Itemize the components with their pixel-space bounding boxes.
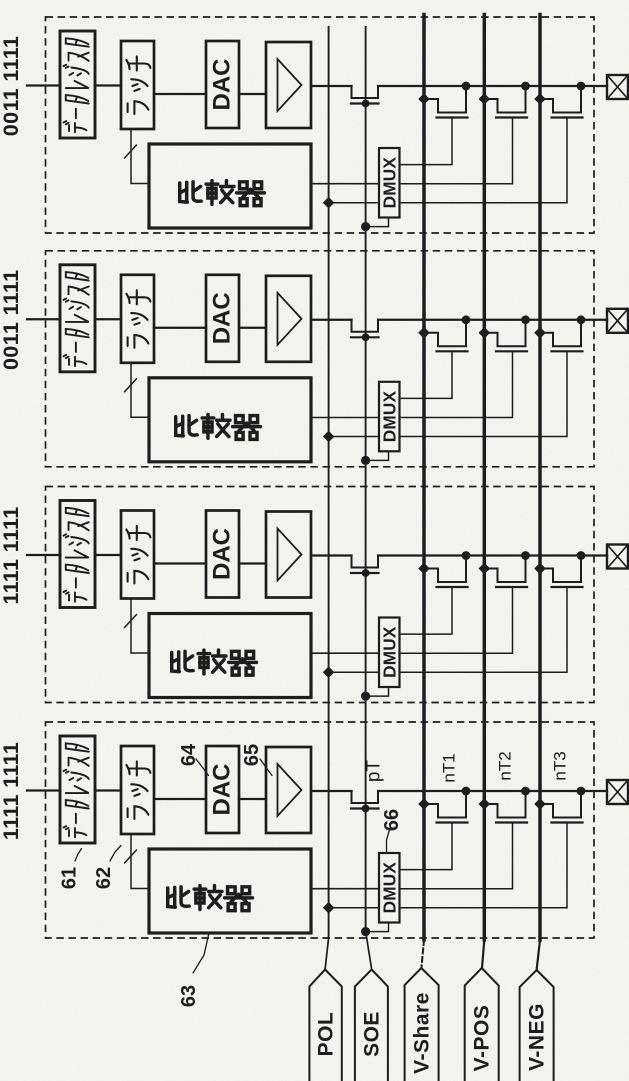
junction SOE tap ch4 [361,927,370,936]
channel block ch1 dashed outline [46,17,595,233]
junction nT3 drain on output ch4 [577,787,586,796]
comparator kanji glyph 3 ch1 [237,182,265,206]
transistor nT1 gate bar ch1 [437,116,468,118]
transistor nT1 gate bar ch2 [437,350,468,352]
transistor nT2 channel ch1 [484,86,525,113]
channel block ch2 dashed outline [46,251,595,467]
wire ch2 amplifier output [311,319,352,321]
transistor nT2 channel ch4 [484,791,525,818]
bus slash tick ch3 [125,615,137,628]
junction nT3 drain on output ch3 [577,551,586,560]
comparator kanji glyph 2 ch1 [206,181,234,205]
transistor pT gate bar ch4 [351,807,379,809]
transistor pT channel ch3 [352,556,379,568]
wire ch4 POL to DMUX [329,907,379,909]
transistor nT2 gate bar ch1 [496,116,527,118]
bus slash tick ch1 [125,145,137,158]
junction SOE to pT gate ch1 [362,100,370,108]
junction nT1 drain on output ch3 [462,551,471,560]
transistor pT gate bar ch3 [351,572,379,574]
amplifier box ch2 (65) [266,276,311,362]
comparator kanji glyph 2 ch2 [202,414,230,438]
junction nT2 drain on output ch1 [521,82,530,91]
latch box ch4 (62) [121,746,154,834]
transistor pT channel ch1 [352,86,379,98]
junction bus tap nT3 ch1 [534,93,546,105]
transistor nT3 channel ch4 [540,791,581,818]
label latch text ch4 [126,761,150,819]
net V-Share vertical line [422,15,426,941]
DAC box ch1 (64) [206,41,239,128]
channel block ch3 dashed outline [46,487,595,703]
output pad X mark ch1 [607,75,628,99]
comparator kanji glyph 1 ch1 [180,182,201,202]
label data-register text ch2 [63,272,88,366]
transistor nT3 channel ch2 [540,320,581,347]
transistor nT1 channel ch4 [424,791,466,818]
junction bus tap nT2 ch1 [479,93,491,105]
DAC box ch2 (64) [206,275,239,362]
comparator box ch3 (63) [149,614,311,698]
comparator box ch1 (63) [149,144,311,228]
junction bus tap nT1 ch2 [418,327,430,339]
wire V-Share dashed lead to tag [421,940,424,968]
DAC box ch3 (64) [206,511,239,598]
net V-NEG vertical line [538,15,542,941]
comparator box ch2 (63) [149,378,311,462]
junction POL tap ch3 [323,666,335,678]
transistor nT2 gate bar ch4 [496,821,527,823]
transistor nT3 gate bar ch4 [552,821,583,823]
transistor pT channel ch4 [352,791,379,803]
junction bus tap nT1 ch3 [418,563,430,575]
transistor nT1 channel ch1 [424,86,466,113]
latch box ch1 (62) [121,41,154,129]
label data-register text ch4 [63,743,88,837]
amplifier box ch3 (65) [266,512,311,598]
wire POL lead to tag [325,938,329,969]
junction SOE to pT gate ch3 [362,569,370,577]
output pad X mark ch4 [607,780,628,804]
wire ch3 DAC to amplifier [239,562,266,564]
transistor nT2 gate bar ch3 [496,586,527,588]
net POL vertical line [328,27,330,938]
wire ch3 latch to comparator [131,599,149,654]
wire ch3 POL to DMUX [329,671,379,673]
net SOE vertical line [365,27,367,931]
comparator kanji glyph 1 ch4 [168,887,189,907]
junction nT1 drain on output ch1 [462,82,471,91]
output pad box ch2 [607,309,628,333]
wire ch3 DMUX out1 to nT1 gate [400,588,453,634]
wire ch4 comparator to DMUX [311,888,379,890]
wire ch2 latch to DAC [154,327,206,329]
transistor nT2 channel ch2 [484,320,525,347]
junction nT3 drain on output ch1 [577,82,586,91]
wire ch3 DMUX out2 to nT2 gate [400,588,513,653]
wire ch4 SOE to DMUX [366,923,389,932]
DMUX box ch2 (66) [379,382,400,452]
wire ch2 DMUX out2 to nT2 gate [400,352,513,417]
wire ch1 DMUX out3 to nT3 gate [400,119,568,203]
wire ch4 data input [27,789,60,791]
data register box ch3 (61) [60,501,95,608]
wire ch4 DMUX out3 to nT3 gate [400,824,568,908]
wire ch2 DAC to amplifier [239,327,266,329]
comparator kanji glyph 3 ch4 [225,887,253,911]
comparator box ch4 (63) [149,849,311,933]
junction SOE to pT gate ch2 [362,333,370,341]
output pad box ch4 [607,780,628,804]
junction nT2 drain on output ch4 [521,787,530,796]
leader 64 [196,759,209,776]
transistor nT1 channel ch2 [424,320,466,347]
transistor pT channel ch2 [352,320,379,332]
transistor nT3 gate bar ch1 [552,116,583,118]
junction nT1 drain on output ch4 [462,787,471,796]
transistor nT2 gate bar ch2 [496,350,527,352]
DMUX box ch3 (66) [379,618,400,688]
junction bus tap nT2 ch2 [479,327,491,339]
wire ch3 latch to DAC [154,562,206,564]
terminal tag V-Share pentagon [405,968,439,1081]
wire ch4 DMUX out1 to nT1 gate [400,824,453,870]
leader 61 [75,849,82,862]
amplifier triangle ch4 [278,764,302,816]
terminal tag SOE pentagon [355,970,388,1081]
latch box ch3 (62) [121,511,154,599]
junction nT1 drain on output ch2 [462,315,471,324]
wire V-NEG lead to tag [537,940,540,970]
junction nT3 drain on output ch2 [577,315,586,324]
wire V-POS lead to tag [482,940,484,968]
junction bus tap nT2 ch4 [479,798,491,810]
junction bus tap nT2 ch3 [479,563,491,575]
data register box ch2 (61) [60,265,95,372]
bus slash tick ch4 [125,850,137,863]
wire ch4 latch to comparator [131,834,149,889]
junction SOE tap ch1 [361,222,370,231]
junction SOE tap ch2 [361,456,370,465]
wire SOE lead to tag [366,931,372,969]
junction bus tap nT1 ch1 [418,93,430,105]
transistor nT3 channel ch3 [540,556,581,583]
wire ch2 latch to comparator [131,363,149,418]
junction POL tap ch2 [323,431,335,443]
wire ch2 output line to pad [378,319,607,321]
wire ch2 DMUX out1 to nT1 gate [400,352,453,398]
comparator kanji glyph 3 ch3 [229,651,257,675]
amplifier triangle ch1 [278,59,302,111]
junction bus tap nT3 ch2 [534,327,546,339]
wire ch1 comparator to DMUX [311,183,379,185]
transistor nT1 channel ch3 [424,556,466,583]
leader 65 [260,759,272,776]
wire ch1 amplifier output [311,85,352,87]
comparator kanji glyph 3 ch2 [233,416,261,440]
transistor pT gate bar ch2 [351,336,379,338]
wire ch2 SOE to DMUX [366,451,389,460]
wire ch2 DMUX out3 to nT3 gate [400,352,568,436]
label data-register text ch1 [63,38,88,132]
wire ch1 latch to comparator [131,129,149,184]
channel block ch4 dashed outline [46,722,595,938]
wire ch1 output line to pad [378,85,607,87]
wire ch4 DAC to amplifier [239,798,266,800]
transistor pT gate bar ch1 [351,102,379,104]
junction nT2 drain on output ch2 [521,315,530,324]
terminal tag V-POS pentagon [465,968,499,1081]
terminal tag V-NEG pentagon [520,970,554,1081]
junction SOE tap ch3 [361,692,370,701]
DMUX box ch1 (66) [379,148,400,218]
transistor nT3 gate bar ch2 [552,350,583,352]
net V-POS vertical line [483,15,487,941]
transistor nT1 gate bar ch4 [437,821,468,823]
latch box ch2 (62) [121,275,154,363]
data register box ch1 (61) [60,31,95,138]
comparator kanji glyph 1 ch2 [176,416,197,436]
junction nT2 drain on output ch3 [521,551,530,560]
label latch text ch3 [126,526,150,584]
wire ch4 latch to DAC [154,798,206,800]
terminal tag POL pentagon [309,970,341,1081]
comparator kanji glyph 2 ch3 [198,650,226,674]
DAC box ch4 (64) [206,746,239,833]
wire ch3 output line to pad [378,554,607,556]
wire ch3 DMUX out3 to nT3 gate [400,588,568,672]
wire ch2 data input [27,318,60,320]
wire ch3 SOE to DMUX [366,687,389,696]
transistor nT2 channel ch3 [484,556,525,583]
bus slash tick ch2 [125,379,137,392]
comparator kanji glyph 2 ch4 [194,886,222,910]
wire ch1 DMUX out1 to nT1 gate [400,119,453,165]
output pad box ch3 [607,545,628,569]
wire ch3 register to latch [95,554,121,556]
wire ch4 output line to pad [378,790,607,792]
amplifier box ch4 (65) [266,747,311,833]
output pad X mark ch3 [607,545,628,569]
transistor nT3 channel ch1 [540,86,581,113]
wire ch2 register to latch [95,318,121,320]
DMUX box ch4 (66) [379,853,400,923]
data register box ch4 (61) [60,736,95,843]
junction POL tap ch4 [323,902,335,914]
label latch text ch1 [126,56,150,113]
comparator kanji glyph 1 ch3 [172,651,193,671]
wire ch1 DMUX out2 to nT2 gate [400,119,513,184]
wire ch4 register to latch [95,789,121,791]
junction bus tap nT3 ch3 [534,563,546,575]
transistor nT3 gate bar ch3 [552,586,583,588]
amplifier triangle ch3 [278,529,302,581]
wire ch3 comparator to DMUX [311,652,379,654]
wire ch2 POL to DMUX [329,436,379,438]
junction POL tap ch1 [323,197,335,209]
wire ch1 DAC to amplifier [239,93,266,95]
junction bus tap nT3 ch4 [534,798,546,810]
label latch text ch2 [126,290,150,348]
transistor nT1 gate bar ch3 [437,586,468,588]
leader 63 [193,935,209,973]
wire ch4 DMUX out2 to nT2 gate [400,824,513,889]
wire ch4 amplifier output [311,790,352,792]
amplifier box ch1 (65) [266,42,311,128]
wire ch1 POL to DMUX [329,202,379,204]
amplifier triangle ch2 [278,293,302,345]
leader 62 [110,846,121,862]
wire ch1 data input [27,84,60,86]
wire ch3 amplifier output [311,554,352,556]
junction SOE to pT gate ch4 [362,805,370,813]
leader 66 [387,828,391,852]
wire ch3 data input [27,554,60,556]
wire ch2 comparator to DMUX [311,417,379,419]
output pad box ch1 [607,75,628,99]
output pad X mark ch2 [607,309,628,333]
wire ch1 SOE to DMUX [366,218,389,227]
wire ch1 register to latch [95,84,121,86]
wire ch1 latch to DAC [154,93,206,95]
junction bus tap nT1 ch4 [418,798,430,810]
label data-register text ch3 [63,508,88,602]
